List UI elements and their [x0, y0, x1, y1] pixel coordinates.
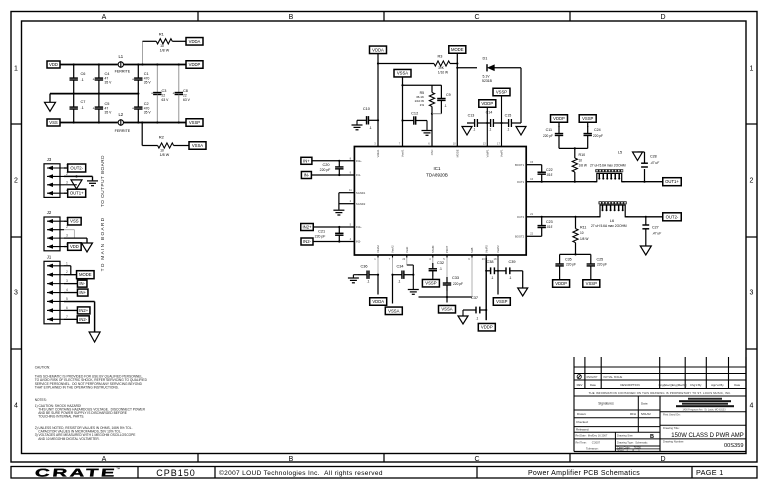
- svg-text:.1: .1: [476, 317, 479, 321]
- svg-text:IC1: IC1: [434, 166, 441, 171]
- svg-text:VSS: VSS: [49, 120, 58, 125]
- svg-text:VddA1: VddA1: [376, 149, 380, 157]
- svg-text:C34: C34: [396, 265, 404, 269]
- svg-text:C38: C38: [486, 260, 493, 264]
- svg-text:SGND1: SGND1: [356, 191, 366, 195]
- svg-text:220 pF: 220 pF: [453, 282, 463, 286]
- svg-text:1: 1: [14, 66, 18, 73]
- svg-text:VssA1: VssA1: [401, 149, 405, 157]
- svg-text:B: B: [289, 14, 294, 21]
- svg-text:4: 4: [66, 288, 68, 292]
- svg-text:VSS: VSS: [70, 219, 79, 224]
- svg-text:63 V: 63 V: [162, 98, 170, 102]
- svg-text:.015: .015: [546, 173, 552, 177]
- svg-text:11: 11: [349, 188, 352, 192]
- svg-text:J3: J3: [47, 157, 52, 162]
- svg-text:.1: .1: [369, 126, 372, 130]
- svg-text:Checked:: Checked:: [576, 420, 589, 424]
- svg-text:C14: C14: [486, 111, 493, 115]
- svg-text:BOOT1: BOOT1: [515, 163, 525, 167]
- svg-text:2: 2: [66, 270, 68, 274]
- svg-text:.1: .1: [491, 276, 494, 280]
- svg-text:C39: C39: [508, 260, 515, 264]
- svg-text:35 V: 35 V: [105, 81, 113, 85]
- svg-text:VssP1: VssP1: [500, 149, 504, 157]
- svg-text:2: 2: [750, 178, 754, 185]
- svg-text:IN-: IN-: [304, 173, 310, 178]
- svg-text:16: 16: [530, 177, 534, 181]
- svg-text:10: 10: [160, 149, 164, 153]
- svg-text:Chg'd By: Chg'd By: [690, 383, 702, 387]
- svg-text:©2007 LOUD Technologies Inc.: ©2007 LOUD Technologies Inc. All rights …: [219, 469, 383, 477]
- svg-text:VSSP: VSSP: [496, 90, 507, 95]
- svg-text:220 pF: 220 pF: [593, 134, 603, 138]
- svg-text:IN2-: IN2-: [79, 317, 88, 322]
- svg-text:VDDP: VDDP: [481, 325, 493, 330]
- svg-text:VSSP: VSSP: [496, 299, 507, 304]
- svg-text:IN2+: IN2+: [79, 308, 89, 313]
- svg-text:.1: .1: [439, 267, 442, 271]
- svg-text:L1: L1: [118, 54, 123, 59]
- svg-text:C25: C25: [597, 258, 604, 262]
- svg-text:THE INFORMATION CONTAINED ON T: THE INFORMATION CONTAINED ON THIS DRAWIN…: [589, 391, 732, 395]
- svg-text:VSSA: VSSA: [397, 71, 408, 76]
- svg-text:15: 15: [530, 160, 534, 164]
- svg-text:VDDA: VDDA: [189, 39, 201, 44]
- svg-text:VssP2: VssP2: [496, 245, 500, 253]
- svg-text:C22: C22: [546, 168, 553, 172]
- svg-text:22: 22: [530, 232, 534, 236]
- svg-text:CAUTION:: CAUTION:: [35, 365, 50, 369]
- svg-text:220 pF: 220 pF: [566, 263, 576, 267]
- svg-text:VddP2: VddP2: [484, 245, 488, 253]
- svg-text:MODE: MODE: [79, 272, 92, 277]
- svg-text:OUT2-: OUT2-: [666, 214, 679, 219]
- svg-text:C27: C27: [652, 226, 659, 230]
- svg-text:5231B: 5231B: [482, 79, 493, 83]
- svg-text:.015: .015: [546, 225, 552, 229]
- svg-text:R3: R3: [438, 55, 443, 59]
- svg-text:IN-: IN-: [79, 281, 85, 286]
- svg-text:TOUCHING INTERNAL PARTS.: TOUCHING INTERNAL PARTS.: [35, 415, 85, 419]
- svg-text:7: 7: [66, 315, 68, 319]
- svg-text:C32: C32: [437, 261, 444, 265]
- svg-text:Rel Time: C’2007: Rel Time: C’2007: [576, 441, 601, 445]
- svg-text:OUT1+: OUT1+: [665, 179, 679, 184]
- svg-text:IN2+: IN2+: [356, 225, 362, 229]
- svg-text:TO OUTPUT BOARD: TO OUTPUT BOARD: [100, 155, 105, 207]
- svg-text:VDDA: VDDA: [372, 47, 384, 52]
- svg-text:.1: .1: [398, 280, 401, 284]
- svg-text:SUB: SUB: [470, 247, 474, 253]
- svg-text:3: 3: [750, 290, 754, 297]
- svg-text:J2: J2: [47, 210, 52, 215]
- svg-text:C5: C5: [105, 102, 110, 106]
- svg-text:STABI: STABI: [431, 245, 435, 253]
- svg-text:VSSP: VSSP: [425, 281, 436, 286]
- svg-text:22: 22: [162, 94, 166, 98]
- svg-text:DESCRIPTION: DESCRIPTION: [620, 383, 639, 387]
- svg-text:.1: .1: [444, 104, 447, 108]
- svg-text:TDA8920B: TDA8920B: [426, 173, 448, 178]
- svg-text:D1: D1: [483, 57, 488, 61]
- svg-text:27 uH 5.6A max 2OOHM: 27 uH 5.6A max 2OOHM: [591, 224, 627, 228]
- svg-text:VSSA: VSSA: [388, 308, 399, 313]
- svg-text:.47 uF: .47 uF: [650, 161, 660, 165]
- svg-text:AND 10 MEGOHM DIGITAL VOLTMETE: AND 10 MEGOHM DIGITAL VOLTMETER.: [35, 437, 100, 441]
- svg-text:1/8 W: 1/8 W: [160, 153, 170, 157]
- svg-text:C9: C9: [446, 93, 451, 97]
- svg-text:C35: C35: [565, 258, 572, 262]
- svg-text:™: ™: [116, 467, 120, 472]
- svg-text:C2: C2: [144, 102, 149, 106]
- svg-text:VssA2: VssA2: [391, 245, 395, 253]
- svg-text:35 V: 35 V: [144, 81, 152, 85]
- svg-text:1/8 W: 1/8 W: [579, 164, 588, 168]
- svg-text:Sheet 1 of 1: Sheet 1 of 1: [617, 449, 640, 452]
- svg-text:1/10 W: 1/10 W: [438, 71, 449, 75]
- svg-text:SGND2: SGND2: [356, 202, 366, 206]
- svg-text:C10: C10: [363, 107, 370, 111]
- svg-text:VDDP: VDDP: [555, 281, 567, 286]
- svg-text:VDD: VDD: [49, 62, 58, 67]
- svg-text:2: 2: [14, 178, 18, 185]
- svg-text:J1: J1: [47, 254, 52, 259]
- svg-text:OUT2: OUT2: [517, 215, 525, 219]
- svg-text:1%: 1%: [420, 103, 425, 107]
- svg-text:C28: C28: [650, 155, 657, 159]
- svg-text:VDDA: VDDA: [372, 299, 384, 304]
- svg-text:35 V: 35 V: [144, 111, 152, 115]
- svg-text:.1: .1: [367, 280, 370, 284]
- svg-text:VDDP: VDDP: [481, 101, 493, 106]
- svg-text:C15: C15: [505, 114, 512, 118]
- svg-text:1400 Ferguson Ave. St. Louis,: 1400 Ferguson Ave. St. Louis, MO 63133: [682, 409, 726, 412]
- svg-text:220 pF: 220 pF: [543, 134, 553, 138]
- svg-text:.1: .1: [81, 78, 84, 82]
- svg-text:C11: C11: [546, 128, 552, 132]
- svg-text:05/22/07: 05/22/07: [587, 375, 598, 379]
- svg-text:C24: C24: [594, 128, 601, 132]
- svg-text:OUT1: OUT1: [517, 180, 525, 184]
- svg-text:L5: L5: [618, 151, 622, 155]
- svg-text:Drawing Type: Schematic: Drawing Type: Schematic: [617, 441, 648, 445]
- svg-text:C7: C7: [81, 100, 86, 104]
- svg-text:Date: Date: [590, 383, 596, 387]
- svg-text:220 pF: 220 pF: [315, 235, 326, 239]
- svg-text:C33: C33: [452, 276, 459, 280]
- svg-text:L6: L6: [610, 219, 614, 223]
- svg-text:B: B: [289, 456, 294, 463]
- svg-text:Rel.Date: 8hr/Dec 16 2007: Rel.Date: 8hr/Dec 16 2007: [576, 434, 608, 438]
- svg-text:4: 4: [750, 403, 754, 410]
- svg-text:App'vd By: App'vd By: [711, 383, 724, 387]
- svg-text:Drawing Title:: Drawing Title:: [663, 426, 680, 430]
- svg-text:CPB150: CPB150: [156, 468, 196, 478]
- svg-text:R11: R11: [580, 226, 586, 230]
- svg-text:4: 4: [14, 403, 18, 410]
- svg-text:REV: REV: [577, 383, 583, 387]
- svg-text:C13: C13: [468, 114, 475, 118]
- svg-text:Power Amplifier PCB Schematics: Power Amplifier PCB Schematics: [528, 470, 640, 477]
- svg-text:VSSA: VSSA: [192, 143, 203, 148]
- svg-text:.47 uF: .47 uF: [652, 232, 662, 236]
- svg-text:IN+: IN+: [303, 158, 310, 163]
- svg-text:C4: C4: [105, 72, 111, 76]
- svg-text:NOTES:: NOTES:: [35, 398, 47, 402]
- svg-text:R1: R1: [159, 32, 165, 37]
- svg-text:A: A: [102, 14, 107, 21]
- svg-text:220 pF: 220 pF: [597, 263, 607, 267]
- svg-text:3: 3: [66, 234, 68, 238]
- svg-text:L2: L2: [118, 112, 123, 117]
- svg-text:3: 3: [66, 180, 68, 184]
- svg-text:.1: .1: [473, 128, 476, 132]
- svg-text:R2: R2: [159, 135, 165, 140]
- svg-text:FERRITE: FERRITE: [115, 70, 131, 74]
- svg-text:R10: R10: [579, 153, 586, 157]
- svg-text:2: 2: [66, 225, 68, 229]
- svg-text:5.1V: 5.1V: [482, 75, 490, 79]
- svg-text:Date:: Date:: [641, 402, 648, 406]
- svg-text:C8: C8: [183, 89, 188, 93]
- svg-text:VSSP: VSSP: [586, 281, 597, 286]
- svg-text:.1: .1: [81, 106, 84, 110]
- svg-text:C1: C1: [144, 72, 149, 76]
- svg-text:OUT2-: OUT2-: [70, 166, 83, 171]
- svg-text:Date: Date: [734, 383, 740, 387]
- svg-text:VDDP: VDDP: [189, 62, 201, 67]
- svg-text:21: 21: [530, 212, 534, 216]
- svg-text:VddA2: VddA2: [376, 245, 380, 253]
- svg-text:C3: C3: [162, 89, 167, 93]
- svg-text:Released:: Released:: [576, 428, 589, 432]
- svg-text:First Used On:: First Used On:: [663, 413, 681, 417]
- svg-text:3: 3: [66, 279, 68, 283]
- svg-text:IN2-: IN2-: [356, 240, 361, 244]
- svg-text:1: 1: [66, 261, 68, 265]
- svg-text:B: B: [650, 434, 654, 440]
- svg-text:OSC: OSC: [430, 149, 434, 155]
- svg-text:1/8 W: 1/8 W: [160, 49, 170, 53]
- svg-text:IN2+: IN2+: [302, 225, 312, 230]
- svg-text:MODE: MODE: [451, 47, 464, 52]
- svg-text:VSSP: VSSP: [189, 120, 200, 125]
- svg-text:00S359: 00S359: [724, 443, 744, 449]
- svg-text:D: D: [660, 14, 665, 21]
- svg-text:IN+: IN+: [79, 290, 86, 295]
- svg-text:C36: C36: [360, 265, 367, 269]
- svg-text:.1: .1: [507, 128, 510, 132]
- svg-text:VSSP: VSSP: [582, 116, 593, 121]
- svg-text:Drawing Size:: Drawing Size:: [617, 434, 633, 438]
- svg-text:.1: .1: [509, 276, 512, 280]
- svg-text:MODE: MODE: [456, 149, 460, 157]
- svg-text:A: A: [102, 456, 107, 463]
- svg-text:C20: C20: [322, 163, 329, 167]
- svg-text:IN1-: IN1-: [356, 173, 361, 177]
- svg-text:PAGE 1: PAGE 1: [696, 468, 724, 477]
- svg-text:THAT EXPLAINED IN THE OPERATIN: THAT EXPLAINED IN THE OPERATING INSTRUCT…: [35, 386, 119, 390]
- svg-text:5/01/02: 5/01/02: [641, 412, 651, 416]
- svg-text:Signatures: Signatures: [598, 402, 614, 406]
- svg-text:39K: 39K: [438, 66, 445, 70]
- svg-text:220 pF: 220 pF: [320, 168, 331, 172]
- svg-text:.1: .1: [489, 128, 492, 132]
- svg-text:OUT1+: OUT1+: [70, 191, 84, 196]
- svg-text:5: 5: [66, 297, 68, 301]
- svg-text:Drawn:: Drawn:: [577, 412, 586, 416]
- svg-text:C21: C21: [318, 230, 325, 234]
- svg-text:10: 10: [579, 159, 583, 163]
- svg-text:1: 1: [750, 66, 754, 73]
- svg-text:150W CLASS D PWR AMP: 150W CLASS D PWR AMP: [671, 433, 743, 439]
- svg-text:C23: C23: [546, 220, 553, 224]
- svg-text:VDD: VDD: [70, 244, 79, 249]
- svg-text:Eng(Elec)[Eng(Mech)]: Eng(Elec)[Eng(Mech)]: [659, 383, 687, 387]
- svg-text:10: 10: [580, 231, 584, 235]
- svg-text:C: C: [474, 456, 479, 463]
- svg-text:C: C: [474, 14, 479, 21]
- svg-text:INITIAL ISSUE: INITIAL ISSUE: [604, 375, 623, 379]
- svg-text:VssD: VssD: [405, 247, 409, 253]
- svg-text:C6: C6: [81, 72, 86, 76]
- svg-text:FERRITE: FERRITE: [115, 129, 131, 133]
- svg-text:6: 6: [66, 306, 68, 310]
- svg-text:3: 3: [14, 290, 18, 297]
- svg-text:10: 10: [160, 44, 164, 48]
- svg-text:C37: C37: [471, 296, 478, 300]
- svg-text:22: 22: [183, 94, 187, 98]
- svg-text:PROT: PROT: [445, 245, 449, 253]
- svg-text:C12: C12: [411, 112, 418, 116]
- svg-text:63 V: 63 V: [183, 98, 191, 102]
- svg-text:Tolerance:: Tolerance:: [586, 447, 599, 451]
- svg-text:BOOT2: BOOT2: [515, 235, 525, 239]
- svg-text:IN2-: IN2-: [303, 239, 312, 244]
- svg-text:Drawing Number:: Drawing Number:: [663, 440, 684, 444]
- svg-text:D: D: [660, 456, 665, 463]
- svg-text:1/8 W: 1/8 W: [580, 237, 589, 241]
- svg-text:35 V: 35 V: [105, 111, 113, 115]
- svg-text:RFH: RFH: [630, 412, 636, 416]
- svg-text:TO MAIN BOARD: TO MAIN BOARD: [100, 217, 106, 272]
- svg-text:VddP1: VddP1: [486, 149, 490, 157]
- svg-text:CRATE: CRATE: [34, 467, 118, 479]
- svg-text:IN1+: IN1+: [356, 159, 362, 163]
- svg-text:VDDP: VDDP: [553, 116, 565, 121]
- svg-text:27 uH 5.6A max 2OOHM: 27 uH 5.6A max 2OOHM: [590, 164, 626, 168]
- svg-text:VSSA: VSSA: [441, 307, 452, 312]
